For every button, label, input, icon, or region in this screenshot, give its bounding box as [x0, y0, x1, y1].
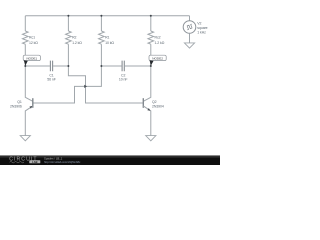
svg-text:square: square: [197, 26, 207, 30]
svg-text:http://circuitlab.com/c9rj5mb8: http://circuitlab.com/c9rj5mb8x: [44, 160, 81, 164]
svg-text:1.2 kΩ: 1.2 kΩ: [72, 41, 82, 45]
svg-text:Q1: Q1: [17, 100, 22, 104]
svg-text:R1: R1: [105, 36, 109, 40]
svg-text:56 nF: 56 nF: [47, 77, 56, 81]
svg-text:10 nF: 10 nF: [119, 77, 128, 81]
svg-text:Q2: Q2: [152, 100, 157, 104]
svg-text:10 kΩ: 10 kΩ: [105, 41, 114, 45]
svg-text:12 kΩ: 12 kΩ: [29, 41, 38, 45]
svg-text:2N3904: 2N3904: [152, 104, 164, 108]
svg-text:1.2 kΩ: 1.2 kΩ: [155, 41, 165, 45]
svg-text:1 kHz: 1 kHz: [197, 30, 206, 34]
svg-text:NODE1: NODE1: [26, 57, 37, 61]
svg-text:R2: R2: [72, 36, 76, 40]
svg-text:NODE2: NODE2: [152, 57, 163, 61]
svg-text:2N3906: 2N3906: [10, 104, 22, 108]
svg-text:LAB: LAB: [32, 160, 37, 164]
svg-text:Rc1: Rc1: [29, 36, 35, 40]
svg-text:Rc2: Rc2: [155, 36, 161, 40]
svg-text:V2: V2: [197, 21, 201, 25]
